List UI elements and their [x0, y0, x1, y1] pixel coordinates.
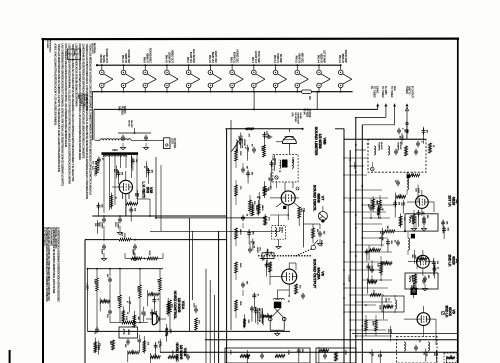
- resistor R sound in: [246, 127, 254, 137]
- wire V3 pins: [407, 190, 434, 216]
- IF strip filler part 8: [396, 193, 406, 208]
- svg-text:A.C.: A.C.: [91, 166, 94, 171]
- wire center rail D: [209, 280, 211, 363]
- terminal arrow AGC to tuner: [362, 104, 396, 125]
- speaker wires: [270, 308, 284, 333]
- IF transformer T2 box: [405, 214, 438, 231]
- capacitor C horiz A: [106, 274, 112, 283]
- coil L IF2: [408, 232, 410, 255]
- svg-text:CIRC: CIRC: [112, 148, 118, 152]
- label tuner terminal 1: [370, 86, 379, 98]
- horiz control filler part 7: [128, 350, 140, 363]
- svg-text:TO PIN 8: TO PIN 8: [308, 109, 310, 119]
- resistor R snd l4: [249, 200, 255, 211]
- sound section filler part 5: [262, 132, 268, 148]
- capacitor C V3 screen: [367, 204, 373, 211]
- svg-text:TRAMPA: TRAMPA: [396, 142, 399, 151]
- coil L IF3: [395, 295, 397, 313]
- power supply filler part 7: [113, 165, 117, 178]
- screw adj tuner: [371, 162, 375, 171]
- label T output: [287, 300, 289, 303]
- wire V15 plate: [104, 168, 115, 213]
- schematic page frame (border): [42, 38, 460, 363]
- capacitor C snd l7: [248, 246, 255, 253]
- notes text block (rotated): [54, 43, 97, 199]
- tube heater pair V10 (filament string): [295, 64, 308, 92]
- resistor R horiz F: [157, 278, 162, 291]
- fuse F1 on filament bus: [302, 90, 312, 100]
- IF right column part 2: [432, 265, 438, 279]
- bottom strip filler part 5: [369, 349, 373, 363]
- IF mid column part 2: [417, 210, 423, 226]
- IF mid column part 3: [411, 250, 415, 264]
- wire AC line: [93, 109, 95, 140]
- horiz control filler part 10: [150, 309, 156, 324]
- transformer T1 secondary: [103, 155, 127, 156]
- sound mid filler part 2: [271, 155, 275, 171]
- IF strip filler part 12: [387, 326, 391, 342]
- wire B+ rail 2: [349, 150, 351, 363]
- label B+ tap: [303, 109, 310, 119]
- filament label for tube SYNC SEP: [251, 51, 261, 64]
- resistor R snd l1: [235, 150, 241, 161]
- registration tick bottom-left: [9, 350, 11, 363]
- capacitor C snd l9: [241, 281, 248, 288]
- sound section filler part 6: [247, 229, 253, 244]
- IF strip filler part 15: [369, 246, 381, 261]
- wire top right h: [398, 134, 400, 139]
- transformer T sound IF (dashed box): [273, 149, 298, 182]
- diode terminal IF output: [406, 103, 409, 134]
- capacitor C V8 in: [260, 257, 267, 261]
- label +135V rail: [353, 162, 356, 169]
- wire discr out: [303, 224, 322, 246]
- filament label for tube 1ST IF AMP: [316, 50, 326, 63]
- resistor R V7 load: [298, 207, 305, 218]
- svg-text:10%: 10%: [300, 208, 302, 212]
- IF mid column part 5: [417, 256, 427, 269]
- transformer T1 core bar: [102, 148, 139, 155]
- svg-text:Desig: Desig: [73, 50, 75, 56]
- wire sound left rail: [230, 160, 232, 330]
- horiz control filler part 1: [100, 298, 110, 312]
- label V5: [444, 305, 455, 318]
- horiz control filler part 8: [126, 297, 130, 313]
- filament label for tube AGC KEYER: [186, 49, 196, 64]
- transformer T output: [274, 290, 290, 308]
- filament label for tube 2ND IF AMP: [338, 50, 348, 64]
- switch SW on-off: [311, 240, 318, 250]
- capacitor C horiz k: [124, 339, 130, 348]
- wire center rail A: [226, 129, 228, 363]
- svg-text:SOUND LIMITER: SOUND LIMITER: [314, 127, 318, 156]
- horiz control filler2 part 2: [95, 341, 99, 355]
- svg-text:100K: 100K: [94, 279, 96, 284]
- wire horiz block top: [87, 268, 163, 332]
- filament label for tube VIDEO OUT: [164, 50, 174, 64]
- capacitor C V3 cath: [422, 215, 428, 222]
- IF strip filler part 11: [383, 304, 393, 320]
- IF strip filler part 5: [382, 260, 392, 275]
- horiz control filler2 part 1: [136, 335, 140, 351]
- IF right column part 1: [442, 226, 448, 239]
- terminal circle V7 grid: [296, 187, 299, 190]
- svg-text:220K: 220K: [117, 296, 119, 301]
- resistor R horiz G: [122, 316, 134, 324]
- svg-text:PIN 9: PIN 9: [230, 57, 234, 64]
- power supply filler part 5: [97, 157, 103, 171]
- horiz control filler2 part 3: [133, 311, 139, 328]
- svg-text:3/4 AMP 125V: 3/4 AMP 125V: [82, 94, 85, 108]
- box horiz coil: [119, 327, 138, 338]
- bottom strip filler part 7: [377, 350, 381, 363]
- IF strip filler part 6: [372, 197, 378, 212]
- resistor R horiz H: [167, 300, 172, 313]
- sound section filler part 1: [259, 310, 263, 324]
- horiz control filler2 part 7: [154, 342, 160, 356]
- slug blob C: [411, 288, 418, 296]
- capacitor C top b: [416, 141, 422, 148]
- IF transformer T3b box: [405, 273, 438, 289]
- power supply filler part 6: [94, 220, 98, 233]
- power supply filler2 part 1: [97, 202, 103, 216]
- capacitor C IF2: [394, 240, 401, 247]
- wire V7 load down: [299, 210, 303, 247]
- resistor R V5 grid: [372, 320, 378, 331]
- resistor R V5 grid2: [365, 305, 381, 331]
- label V15: [141, 182, 153, 199]
- horiz control filler part 5: [157, 339, 161, 353]
- wire center rail E: [213, 295, 215, 363]
- IF right column part 4: [432, 258, 438, 276]
- sound section filler part 7: [249, 238, 253, 250]
- wire sound T to V7: [285, 182, 293, 191]
- wire PS bus A: [92, 215, 226, 217]
- horiz control filler2 part 6: [94, 338, 100, 354]
- label V11A: [173, 291, 185, 321]
- wire cross line A: [155, 217, 267, 219]
- mechanical link dotted: [259, 249, 312, 256]
- wire filament bus left drop: [91, 92, 93, 141]
- horiz control filler part 6: [150, 353, 160, 363]
- slug blob D: [283, 206, 286, 209]
- label IF output link: [405, 86, 414, 98]
- tube V7: [281, 191, 295, 205]
- filament label for tube VERT OSC: [208, 51, 218, 64]
- tube V15 rectifier: [112, 171, 133, 194]
- capacitor C snd l5: [241, 214, 248, 221]
- bottom strip filler part 3: [422, 348, 426, 361]
- sound discr filler part 4: [256, 192, 260, 209]
- capacitor C V4 screen: [368, 266, 374, 273]
- tube heater pair V7 (filament string): [230, 64, 243, 92]
- sound discr filler part 3: [263, 181, 269, 198]
- wire IF top link: [335, 129, 426, 139]
- wire B+ rail 1: [343, 129, 345, 363]
- tube heater pair V8 (filament string): [252, 64, 265, 92]
- wire V15 cathode: [126, 155, 150, 216]
- sound section filler part 3: [263, 313, 272, 325]
- svg-text:A 20 B. SI NO LLEVAN OTRA ESPE: A 20 B. SI NO LLEVAN OTRA ESPECIFICACION…: [54, 44, 57, 126]
- filament label for tube MIX OSC: [295, 53, 305, 64]
- svg-text:TO TUNER: TO TUNER: [381, 86, 384, 98]
- horiz control filler part 2: [167, 298, 173, 316]
- box bottom sub 1: [225, 348, 310, 363]
- label V6B: [314, 127, 327, 156]
- svg-text:TO TUNER: TO TUNER: [390, 86, 393, 98]
- IF strip filler part 16: [378, 235, 382, 247]
- resistor R deemph: [312, 228, 318, 238]
- capacitor C horiz B: [106, 309, 112, 319]
- IF strip filler part 10: [367, 278, 376, 294]
- interlock plug P1: [164, 138, 177, 149]
- label V7: [312, 185, 324, 211]
- wire filament top bus: [96, 64, 341, 66]
- svg-text:(V9): (V9): [291, 113, 293, 117]
- svg-text:1MEG: 1MEG: [239, 229, 241, 235]
- svg-text:45.4 MC: 45.4 MC: [411, 216, 413, 224]
- wire B+ rail 3: [355, 117, 357, 363]
- tube heater pair V5 (filament string): [186, 64, 199, 92]
- wire V4 screen: [362, 256, 392, 281]
- wire V8 cathode: [288, 284, 290, 297]
- sound section filler part 4: [265, 248, 271, 263]
- sound col filler2 part 6: [250, 306, 256, 322]
- capacitor C filter C: [132, 244, 138, 255]
- wire V8 grid: [270, 270, 282, 285]
- svg-text:270K: 270K: [372, 290, 374, 295]
- horiz control filler2 part 4: [165, 324, 171, 342]
- sound col filler2 part 1: [246, 170, 252, 183]
- IF strip filler part 14: [393, 200, 399, 217]
- wire AGC link: [280, 217, 318, 219]
- svg-text:270K: 270K: [132, 251, 134, 256]
- wire +135V left rail: [84, 240, 86, 363]
- capacitor C filter D: [101, 244, 107, 255]
- sound col filler2 part 7: [244, 145, 248, 161]
- resistor R horiz C: [94, 278, 99, 291]
- power supply filler2 part 3: [147, 168, 153, 184]
- svg-text:2ND I.F.: 2ND I.F.: [448, 254, 452, 267]
- label V4: [448, 254, 459, 267]
- label tuner terminal 3: [390, 86, 396, 98]
- bottom strip filler part 8: [446, 355, 454, 363]
- bottom components small: [168, 351, 190, 361]
- transformer T1 leads: [104, 155, 132, 168]
- wire center rail B: [218, 231, 220, 363]
- wire V4 pins: [408, 250, 435, 276]
- tube V4: [417, 255, 430, 268]
- resistor R horiz E: [137, 285, 142, 298]
- junction dots IF rails: [343, 144, 363, 341]
- wire V5 pins: [404, 306, 436, 334]
- resistor R V8 cath: [295, 284, 301, 294]
- svg-text:ELECTROSTATICO.: ELECTROSTATICO.: [42, 227, 45, 247]
- filament label for tube HORIZ OSC: [230, 50, 240, 64]
- sound discr filler part 2: [264, 214, 270, 226]
- pentode V6B half tube: [276, 129, 296, 149]
- wire filament tap: [254, 91, 318, 110]
- wire quad stubs: [270, 214, 289, 249]
- svg-text:HORIZ: HORIZ: [127, 329, 129, 336]
- wire sound left stubs: [236, 145, 250, 318]
- label V3: [448, 195, 459, 207]
- transistor Q AGC: [318, 206, 327, 223]
- tuner area filler part 2: [399, 133, 403, 145]
- filament label for tube SOUND LIM: [121, 50, 131, 64]
- wire V7 pins: [270, 198, 299, 215]
- wire bottom right double line: [352, 333, 458, 335]
- svg-text:3RD I.F.: 3RD I.F.: [444, 305, 448, 318]
- tube V3: [416, 196, 429, 209]
- triode V11A half tube: [146, 311, 166, 325]
- wire bottom sub lineB: [205, 339, 458, 341]
- svg-text:150V: 150V: [114, 222, 116, 227]
- volume control R vol: [256, 247, 274, 259]
- tube heater pair V1 (filament string): [100, 64, 113, 92]
- sound col filler2 part 5: [251, 202, 257, 216]
- wire V15 to sound feed: [155, 157, 161, 231]
- power supply filler part 2: [126, 199, 138, 216]
- svg-text:OR FUSIBLE: OR FUSIBLE: [80, 94, 82, 107]
- svg-text:SOUND DISCR.: SOUND DISCR.: [312, 185, 316, 211]
- svg-text:100K: 100K: [255, 206, 257, 211]
- svg-text:PIN 10: PIN 10: [295, 56, 299, 64]
- bottom strip filler part 4: [244, 350, 248, 363]
- wire V4 cath gnd: [412, 284, 427, 291]
- resistor R V3 screen: [376, 200, 382, 211]
- resistor R IF mid: [384, 226, 395, 233]
- svg-text:100K: 100K: [239, 301, 241, 306]
- svg-text:V3 V4: V3 V4: [303, 109, 305, 116]
- label AC line: [91, 166, 96, 177]
- resistor R horiz m: [109, 340, 114, 350]
- svg-text:PIN 3-4: PIN 3-4: [273, 55, 277, 64]
- svg-text:+135V: +135V: [348, 275, 351, 282]
- capacitor C deemph: [318, 231, 325, 238]
- wire tuner out: [406, 134, 408, 139]
- label V8: [312, 259, 324, 289]
- notes text block 2 (rotated): [42, 227, 59, 303]
- tube V8: [282, 269, 297, 284]
- IF strip filler part 3: [366, 263, 372, 281]
- label +135V rail b: [348, 275, 351, 282]
- capacitor C top a: [397, 128, 403, 135]
- wire V8 plate: [289, 263, 296, 270]
- svg-text:270K: 270K: [379, 305, 381, 310]
- tuner area filler part 1: [403, 125, 407, 140]
- tube V5: [417, 313, 430, 326]
- wire V3 cath gnd: [411, 210, 426, 231]
- resistor R V4 cath: [411, 274, 417, 284]
- svg-text:FUSIBLE: FUSIBLE: [120, 106, 122, 115]
- wire sound in stub: [230, 120, 232, 160]
- resistor R surge: [92, 160, 99, 174]
- horiz control filler part 9: [143, 336, 149, 354]
- wire horiz top parts: [125, 253, 163, 259]
- IF strip filler part 2: [399, 213, 405, 227]
- svg-text:220K: 220K: [287, 350, 289, 355]
- svg-text:8.2K: 8.2K: [125, 316, 127, 321]
- svg-text:100K: 100K: [261, 146, 263, 151]
- sound discr filler part 1: [257, 200, 263, 216]
- IF mid column part 4: [410, 283, 414, 298]
- resistor R V8 grid: [265, 262, 271, 272]
- svg-text:3W 470: 3W 470: [123, 106, 125, 114]
- wire PS bus B: [85, 239, 227, 241]
- horiz control filler2 part 8: [140, 307, 144, 322]
- sound col filler2 part 2: [254, 307, 260, 323]
- label filament fuse note: [77, 94, 88, 111]
- box bottom sub 2: [316, 348, 356, 363]
- power supply filler part 1: [131, 158, 137, 171]
- wire IF rail taps: [343, 149, 394, 337]
- svg-text:560K: 560K: [239, 263, 241, 268]
- tube heater pair V3 (filament string): [143, 64, 156, 92]
- coil L IF1: [407, 172, 409, 195]
- svg-text:40MF: 40MF: [101, 249, 103, 255]
- wire bottom right stubs: [410, 231, 436, 345]
- svg-text:4.5MC: 4.5MC: [292, 157, 294, 163]
- svg-text:PIN 3-4: PIN 3-4: [338, 55, 342, 64]
- svg-text:1MEG: 1MEG: [256, 247, 258, 253]
- sound mid filler part 1: [267, 173, 271, 188]
- svg-text:HORIZ CONTROL: HORIZ CONTROL: [173, 291, 177, 321]
- power supply filler2 part 2: [129, 207, 135, 222]
- svg-text:V8 PIN3: V8 PIN3: [99, 54, 103, 63]
- wire B+ return line: [94, 108, 378, 110]
- box bottom right corner dashed: [444, 353, 457, 363]
- tube heater pair V11 (filament string): [317, 64, 330, 92]
- wire horiz mesh A: [96, 268, 160, 295]
- svg-text:PIN 8: PIN 8: [143, 57, 147, 64]
- IF strip filler part 13: [365, 249, 371, 262]
- label cap 270: [263, 186, 271, 192]
- sound mid filler part 3: [269, 160, 275, 177]
- wire cross line B: [150, 230, 280, 232]
- resistor R snd l3: [235, 185, 241, 196]
- capacitor C filter B: [114, 217, 122, 229]
- bottom strip filler part 2: [319, 347, 329, 363]
- coil L sound takeoff: [232, 138, 246, 152]
- resistor R snd l6: [235, 228, 241, 239]
- IF strip filler part 7: [379, 228, 383, 241]
- resistor R horiz A: [131, 251, 142, 260]
- svg-text:NOTAS:: NOTAS:: [93, 43, 97, 54]
- label speaker: [256, 308, 264, 326]
- svg-text:SOUND OUTPUT: SOUND OUTPUT: [312, 259, 316, 289]
- power supply filler2 part 5: [143, 161, 147, 177]
- resistor R snd l8: [235, 262, 241, 273]
- wire horiz bottom line: [88, 331, 291, 333]
- capacitor C sound A: [265, 131, 272, 139]
- wire V5 misc: [344, 304, 376, 336]
- label left margin code: [46, 40, 52, 53]
- resistor R V4 screen: [377, 262, 383, 273]
- resistor R horiz B: [147, 251, 158, 260]
- sound col filler2 part 4: [237, 132, 241, 148]
- power supply filler2 part 4: [110, 193, 116, 209]
- wire B+ rail 4: [361, 125, 363, 363]
- wire PS ground stubs: [101, 226, 137, 261]
- capacitor C V4 cath: [423, 275, 429, 282]
- svg-text:560K: 560K: [148, 251, 150, 256]
- IF strip filler part 9: [400, 200, 404, 214]
- filament label for tube RF AMP: [273, 53, 283, 63]
- capacitor C sound C: [251, 144, 257, 153]
- slug blob A: [407, 175, 410, 178]
- bottom strip filler part 1: [433, 350, 437, 362]
